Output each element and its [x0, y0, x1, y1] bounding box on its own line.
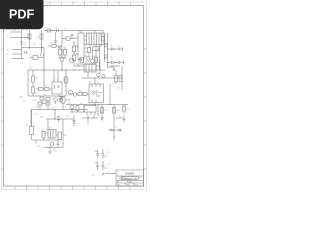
node dot A1 — [29, 47, 30, 48]
wire U4 top feed — [94, 78, 96, 84]
svg-text:CX1: CX1 — [55, 27, 58, 29]
left zone ticks — [2, 49, 4, 169]
node dot F1 — [54, 118, 55, 119]
wire neutral input N — [10, 37, 30, 39]
node dot A2 — [41, 47, 42, 48]
right zone ticks — [144, 49, 147, 169]
svg-text:C1: C1 — [24, 44, 26, 46]
ground GND2 — [48, 152, 51, 153]
svg-text:U2: U2 — [53, 80, 55, 82]
IC U4 internal marks — [96, 90, 102, 96]
svg-text:C6: C6 — [117, 45, 119, 47]
svg-text:U2: U2 — [58, 95, 60, 97]
svg-text:T1: T1 — [78, 31, 80, 33]
wire y104 bus net D — [66, 104, 128, 106]
svg-text:R32: R32 — [40, 116, 43, 118]
transistor Q8 — [69, 91, 73, 95]
svg-text:R14: R14 — [41, 130, 44, 132]
reference designator labels — [7, 27, 130, 166]
svg-text:D7: D7 — [115, 127, 117, 129]
svg-text:R18: R18 — [36, 107, 39, 109]
svg-text:1: 1 — [117, 174, 118, 176]
capacitor C15 — [57, 117, 60, 122]
testpoint mark TP1 — [102, 173, 104, 176]
transformer T1 winding bars — [89, 33, 102, 45]
wire opamp net — [63, 100, 70, 110]
svg-text:R23: R23 — [105, 110, 108, 112]
optocoupler U2 — [52, 82, 62, 94]
svg-text:Rev: Rev — [122, 177, 125, 179]
svg-text:Q4: Q4 — [110, 56, 112, 58]
svg-text:Q2: Q2 — [93, 56, 95, 58]
svg-text:Q8: Q8 — [67, 91, 69, 93]
capacitor C11 — [96, 161, 99, 170]
resistor R2 — [40, 34, 43, 39]
diode D1 — [112, 48, 115, 51]
svg-text:R16: R16 — [79, 90, 82, 92]
resistor R14 — [115, 76, 118, 82]
wire y118 link — [116, 117, 122, 119]
svg-text:C13: C13 — [117, 88, 120, 90]
optocoupler U2 internals — [55, 85, 61, 89]
wire vertical net L — [61, 31, 63, 59]
resistor R23 — [101, 108, 104, 114]
capacitor C12 — [102, 161, 105, 170]
node dot B4 — [95, 69, 96, 70]
wire x74 drop — [72, 115, 75, 125]
node dot E2 — [87, 117, 88, 118]
svg-text:C3: C3 — [55, 107, 57, 109]
left rail vertical — [27, 70, 29, 96]
wire left branch verticals — [22, 30, 42, 54]
resistor R7 — [95, 57, 98, 63]
svg-text:A4: A4 — [117, 181, 119, 184]
svg-text:R9: R9 — [35, 93, 37, 95]
transistor Q7 — [70, 59, 74, 63]
wire U4 bottom out — [94, 103, 96, 105]
wire aux input 2 — [12, 53, 22, 55]
svg-text:R9: R9 — [45, 85, 47, 87]
svg-text:R11: R11 — [44, 100, 47, 102]
fuse F1 — [47, 29, 51, 32]
svg-text:R5: R5 — [72, 56, 74, 58]
svg-text:Date: Date — [117, 183, 121, 186]
wire driver net — [76, 51, 96, 65]
wire y119 bus net F — [46, 118, 72, 120]
svg-text:D8: D8 — [105, 44, 107, 46]
inductor L1 — [93, 47, 100, 51]
wire IC row net — [72, 59, 100, 66]
wire feedback top — [110, 65, 120, 67]
svg-text:F1: F1 — [45, 27, 47, 29]
resistor R30 — [59, 50, 62, 56]
IC U7 pins — [87, 112, 95, 115]
wire secondary column — [107, 33, 109, 68]
capacitor C1 — [20, 42, 22, 43]
diode D2 — [112, 61, 115, 64]
varistor RV1 — [33, 56, 38, 60]
node dot D1 — [109, 104, 110, 105]
wire Y-cap drop — [55, 32, 57, 41]
node dot B1 — [43, 69, 44, 70]
resistor R13 — [80, 58, 84, 63]
resistor R8b — [32, 87, 35, 93]
svg-text:R19: R19 — [51, 108, 54, 110]
wire snubber net — [48, 45, 62, 47]
wire U2 top pins — [54, 70, 58, 82]
wire T1 right leg — [104, 33, 106, 62]
top zone ticks — [50, 2, 131, 6]
opamp row: box U5 — [61, 97, 65, 103]
wire into title block — [105, 173, 116, 175]
resistor R16 — [78, 93, 82, 96]
wire transformer top taps — [81, 31, 103, 34]
wire snubber lower net — [58, 46, 66, 70]
svg-text:U4: U4 — [89, 82, 91, 84]
transistor Q2 — [91, 59, 95, 63]
node dot B2 — [61, 69, 62, 70]
wire drops from F — [48, 119, 63, 148]
resistor R8 — [32, 76, 35, 82]
svg-text:L1: L1 — [85, 45, 87, 47]
wire right mid risers — [102, 105, 114, 133]
transistor Q3 — [104, 43, 107, 46]
svg-text:C6: C6 — [119, 116, 121, 118]
svg-text:SA8WR: SA8WR — [125, 171, 134, 175]
resistor R24 — [113, 108, 116, 114]
svg-text:R22: R22 — [37, 146, 40, 148]
wire cap pair row2 — [95, 163, 107, 168]
svg-text:Q3: Q3 — [100, 34, 102, 36]
svg-text:U6: U6 — [47, 129, 49, 131]
svg-text:R3: R3 — [50, 43, 52, 45]
sheet inner border frame — [4, 6, 144, 187]
resistor R19 — [46, 102, 50, 105]
capacitor CX1 — [57, 29, 59, 32]
wire branch A — [108, 47, 123, 51]
capacitor C6a — [118, 48, 120, 51]
capacitor C2 — [59, 46, 61, 49]
IC U4 internal opto — [92, 91, 95, 94]
wire bridge link — [62, 36, 76, 39]
IC U6 pin marks — [51, 130, 54, 139]
svg-text:D2: D2 — [111, 59, 113, 61]
svg-text:R10: R10 — [44, 95, 47, 97]
transistor Q9 — [73, 93, 77, 97]
wire x116 stub — [115, 70, 117, 84]
svg-text:File: File — [127, 184, 130, 186]
transistor Q13 — [97, 73, 101, 77]
capacitor C7a — [118, 61, 120, 64]
node dot H1 — [107, 48, 108, 49]
svg-text:R8: R8 — [36, 78, 38, 80]
node dot E4 — [71, 109, 72, 110]
diode D10 — [66, 37, 70, 40]
svg-text:D9: D9 — [73, 120, 75, 122]
wire R25 stubs — [123, 105, 125, 115]
svg-text:D1: D1 — [111, 45, 113, 47]
wire sec gnd stub — [108, 67, 116, 71]
wire y109 bus net E — [31, 109, 88, 111]
transistor Q12 — [60, 58, 64, 62]
svg-text:C4: C4 — [26, 125, 28, 127]
zener D7 — [111, 129, 114, 131]
capacitor C10 — [102, 150, 105, 159]
svg-text:R28: R28 — [66, 116, 69, 118]
wire x66 vertical — [65, 70, 67, 96]
capacitor C4 — [57, 140, 60, 148]
svg-text:R24: R24 — [117, 110, 120, 112]
node dot G — [113, 136, 114, 137]
secondary rect row: wire y78 — [82, 77, 122, 79]
svg-text:Q7: Q7 — [68, 56, 70, 58]
node dot E3 — [54, 109, 55, 110]
resistor R1 — [28, 34, 31, 39]
capacitor CY1 — [41, 54, 44, 57]
svg-text:C9: C9 — [107, 152, 109, 154]
svg-text:L: L — [7, 30, 8, 32]
wire sense net — [40, 104, 48, 110]
wire left horizontal net — [22, 48, 45, 71]
ground bus net C — [28, 95, 66, 97]
resistor R6 — [88, 48, 91, 53]
resistor R20 — [76, 106, 79, 111]
svg-text:Q4: Q4 — [104, 57, 106, 59]
wire U7 lower net — [82, 115, 98, 125]
diode D9 — [73, 121, 75, 124]
svg-text:R20: R20 — [80, 104, 83, 106]
wire x98 branch — [97, 105, 99, 117]
wire hv rail right — [121, 66, 123, 90]
wire drop x44 lower — [43, 70, 45, 87]
wire left rail to E — [30, 110, 32, 127]
svg-text:Sheet 1: Sheet 1 — [127, 181, 133, 184]
wire secondary left — [74, 41, 80, 66]
resistor R22 — [42, 132, 45, 139]
resistor R29 — [102, 37, 105, 42]
testpoint mark TP2 — [92, 174, 94, 176]
U1 pin stubs left — [76, 38, 79, 54]
wire aux input 1 — [12, 48, 22, 59]
wire zener net — [108, 130, 120, 140]
wire AC input bus — [44, 30, 104, 32]
sheet outer border frame — [2, 2, 147, 190]
resistor R4 — [73, 46, 76, 52]
node dot A0 — [52, 30, 53, 31]
svg-text:V1: V1 — [7, 54, 9, 56]
transistor Q11 — [50, 142, 54, 146]
transformer T1 box — [87, 33, 105, 45]
svg-text:Q10: Q10 — [68, 102, 71, 104]
resistor R27 — [58, 132, 62, 140]
switcher IC U6 — [48, 130, 56, 139]
capacitor C8 — [119, 129, 122, 132]
resistor R26 — [65, 77, 68, 83]
node dot B3 — [73, 69, 74, 70]
resistor R18 — [38, 102, 42, 105]
svg-text:U3: U3 — [85, 62, 87, 64]
transistor Q10 — [70, 105, 74, 109]
svg-text:R18: R18 — [33, 100, 36, 102]
wire aux input 3 — [12, 58, 24, 60]
transistor Q14 — [102, 75, 105, 78]
svg-text:RV1: RV1 — [30, 58, 33, 60]
transistor Q4 — [104, 55, 107, 58]
SCHEMATIC — [10, 29, 128, 176]
resistor R9 — [39, 88, 44, 91]
svg-text:L2: L2 — [97, 49, 99, 51]
node dot H2 — [107, 62, 108, 63]
svg-text:R26: R26 — [63, 80, 66, 82]
wire x110 riser — [109, 84, 111, 105]
svg-text:V2: V2 — [7, 59, 9, 61]
svg-text:R1: R1 — [33, 44, 35, 46]
PDF badge — [0, 0, 44, 29]
controller IC U7 — [84, 106, 96, 113]
title block — [116, 170, 144, 186]
title block text — [125, 171, 134, 175]
svg-text:R6: R6 — [77, 46, 79, 48]
bottom zone ticks — [15, 186, 130, 190]
resistor R17 — [83, 93, 87, 96]
svg-text:K1: K1 — [64, 29, 66, 31]
snubber cluster: resistor R3 — [52, 45, 56, 48]
node dot D2 — [94, 104, 95, 105]
U1 pin stubs right — [84, 36, 87, 56]
svg-text:U6: U6 — [49, 128, 51, 130]
resistor R15 — [119, 76, 122, 82]
wire bottom stub — [36, 140, 50, 152]
wire lower cluster net — [32, 133, 64, 148]
svg-text:Q11: Q11 — [64, 135, 67, 137]
wire drop x33 — [32, 70, 34, 96]
svg-text:C7: C7 — [117, 59, 119, 61]
ground GND1 — [53, 41, 57, 44]
wire amp row net — [68, 93, 89, 95]
svg-text:R2: R2 — [37, 37, 39, 39]
wire lower stubs — [42, 96, 62, 104]
wire resistor row net — [36, 88, 52, 90]
transistor Q5 — [54, 98, 58, 102]
capacitor C5 — [101, 118, 104, 120]
IC U4 pin marks — [92, 84, 100, 103]
resistor R21 — [30, 127, 34, 135]
resistor R11 — [40, 97, 44, 100]
wire varistor net — [30, 57, 44, 59]
transistor Q6 — [59, 98, 63, 102]
svg-text:R25: R25 — [127, 109, 130, 111]
wire x99 vertical — [99, 45, 101, 71]
wire cap pair row1 — [95, 152, 107, 157]
wire phase input L — [10, 31, 22, 33]
capacitor C16 — [71, 34, 74, 35]
resistor R10 — [45, 88, 50, 91]
node dot C1 — [65, 69, 66, 70]
capacitor C7 — [123, 116, 126, 123]
svg-text:U4: U4 — [97, 82, 99, 84]
PWM controller U1 — [78, 33, 84, 60]
svg-text:PDF: PDF — [9, 8, 35, 22]
resistor R5 — [73, 55, 76, 61]
wire mid drops — [70, 105, 84, 113]
IC U3 pins — [86, 64, 92, 72]
resistor R31 — [64, 50, 67, 56]
svg-text:C21: C21 — [34, 114, 37, 116]
wire branch B — [108, 61, 124, 65]
main bus net B — [28, 69, 105, 71]
svg-text:R4: R4 — [72, 47, 74, 49]
regulator IC U4 — [89, 84, 104, 103]
wire transformer bottom taps — [90, 45, 101, 71]
capacitor C9 — [96, 150, 99, 159]
wire x55 drop — [54, 110, 56, 120]
wire R21 net — [31, 110, 33, 141]
transistor Q1 — [86, 57, 90, 61]
resistor R12 — [46, 98, 50, 101]
capacitor C17 — [25, 51, 28, 54]
wire rect drops — [88, 60, 104, 78]
svg-text:C2: C2 — [30, 68, 32, 70]
resistor R25 — [123, 106, 126, 111]
capacitor C3 — [59, 97, 64, 101]
controller IC U3 — [84, 64, 96, 72]
svg-text:C14: C14 — [54, 150, 57, 152]
svg-text:C11: C11 — [107, 164, 110, 166]
